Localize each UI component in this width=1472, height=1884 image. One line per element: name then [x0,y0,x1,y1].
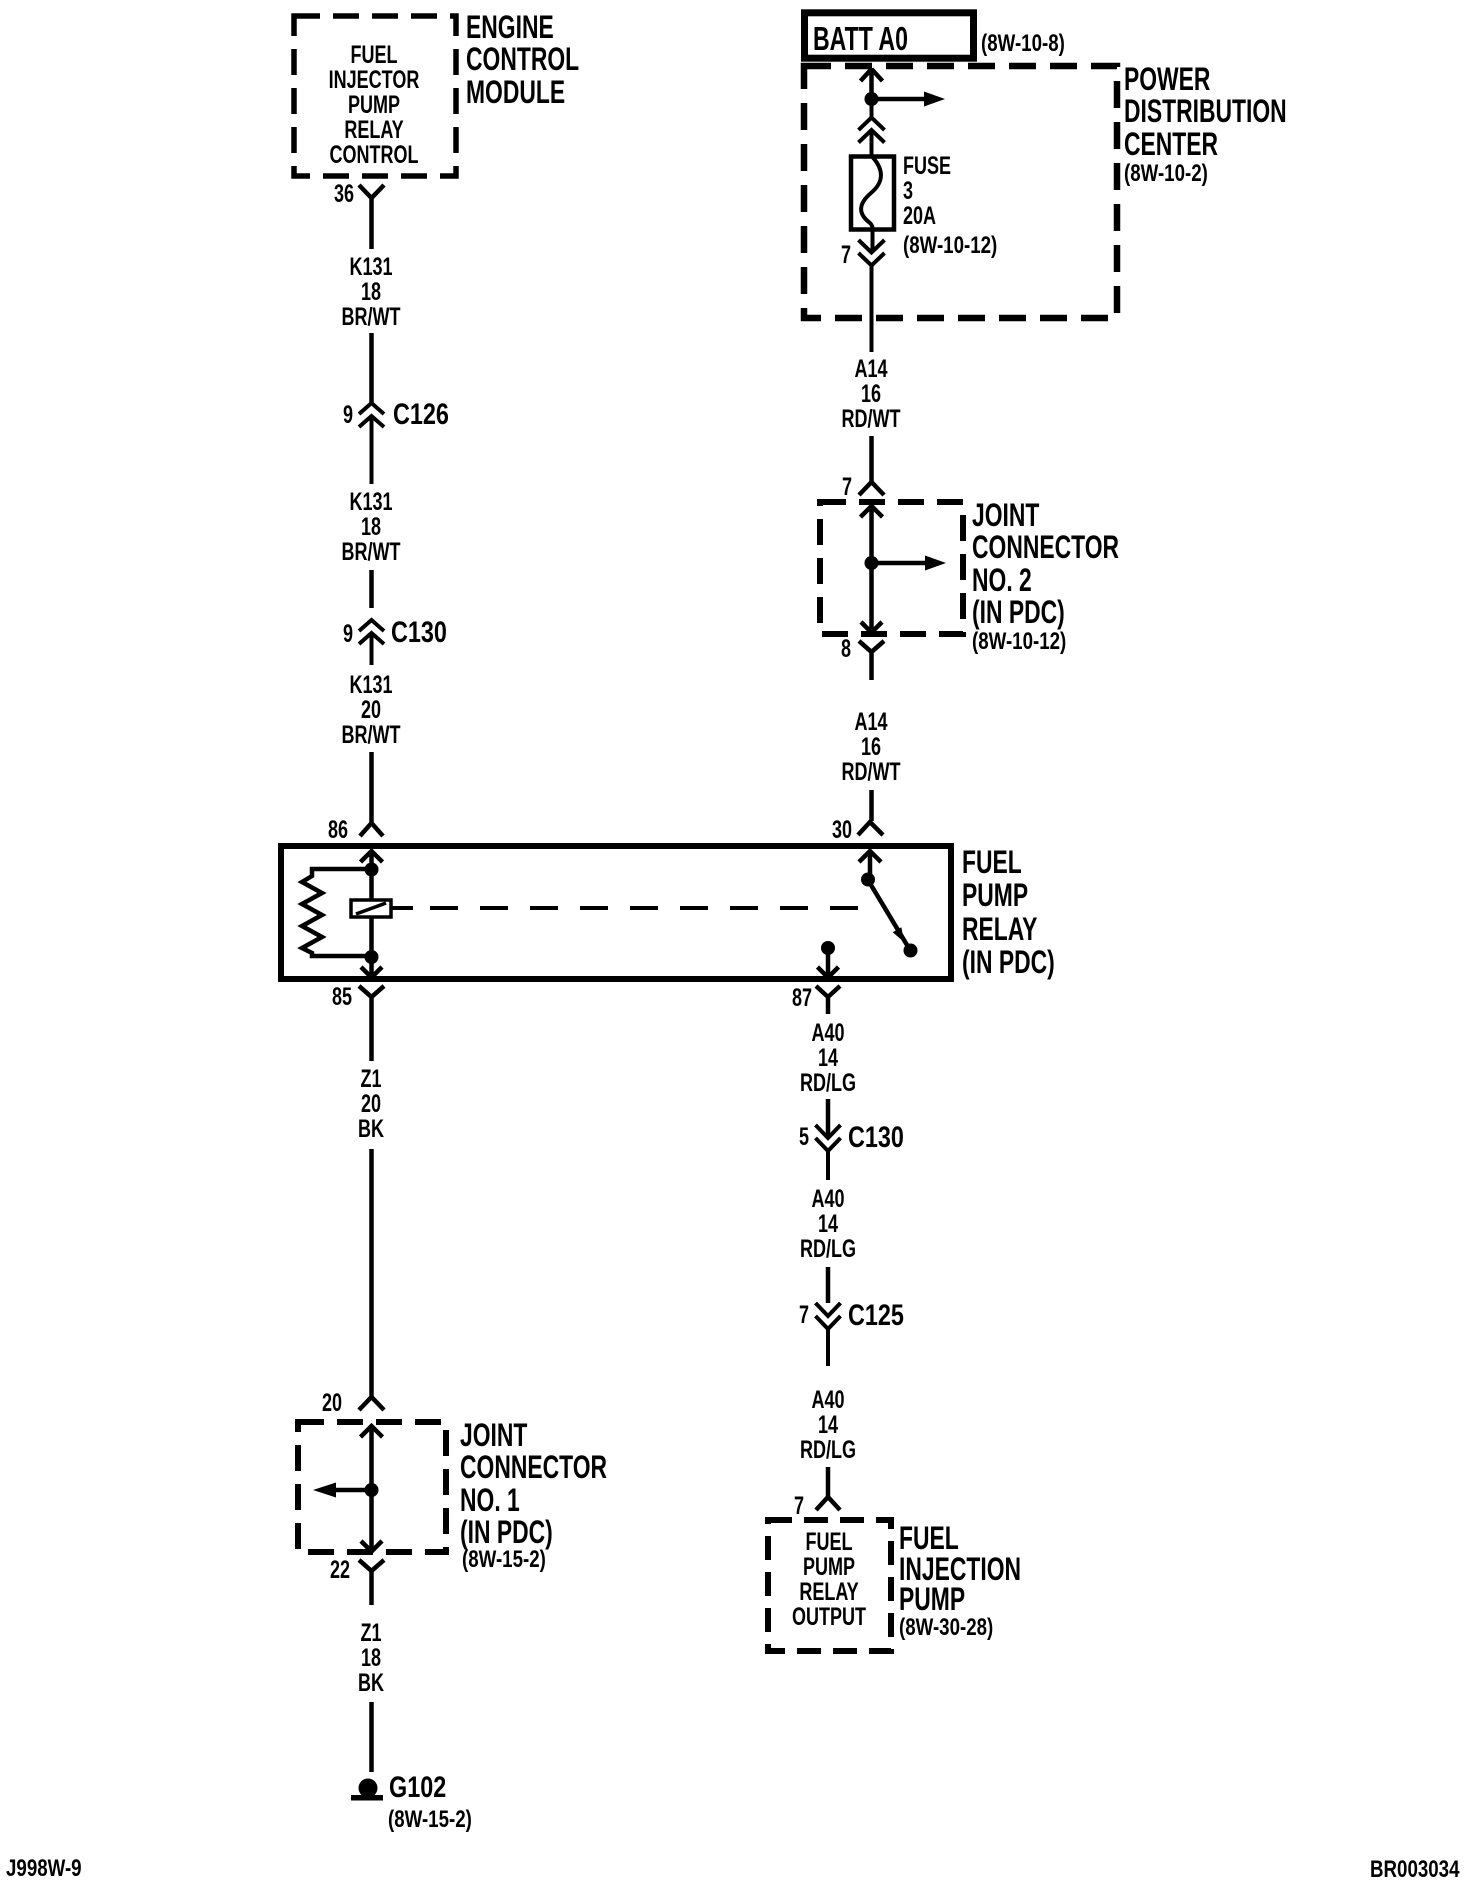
text: pin 7 at fuel injection pump [660,1494,804,1520]
PDC branch arrow right [872,97,925,102]
text: pin 20 [198,1391,342,1417]
text: pin 7 at joint connector no.2 [708,475,852,501]
joint connector no.2 right arrow [872,561,926,566]
text: connector C126 [393,400,449,430]
text: battery feed reference [981,31,1065,56]
joint connector no.2 box (dashed) [820,502,963,634]
PDC double chevron connector [859,99,885,156]
wire A40 14 RD/LG segment 1 [826,1099,831,1138]
pin 85 connector Y [359,986,384,1061]
node joint connector no.2 junction [865,556,879,570]
text: wire K131 18 BR/WT (2) [263,490,479,565]
text: fuse 3 20A label [903,154,951,229]
text: pin 9 at C130 [209,622,353,648]
joint connector no.1 box (dashed) [298,1422,446,1552]
text: wire A40 14 RD/LG (3) [720,1388,936,1463]
node relay coil top junction [365,863,379,877]
pin 8 connector Y [859,641,884,680]
text: battery feed BATT A0 [813,22,908,55]
text: fuel pump relay title [962,846,1055,979]
text: pin 22 [206,1558,350,1584]
text: connector C130 (right) [848,1123,904,1153]
pin 36 connector Y [359,185,384,249]
connector C126 symbol [359,403,384,484]
text: ground G102 [389,1773,446,1803]
pin 30 female chevron [858,822,883,835]
fuel pump relay box [281,846,951,979]
text: pin 87 [668,986,812,1012]
engine control module box (dashed) [294,16,456,176]
pin 20 male arrow inside [361,1426,383,1490]
text: fuse reference [903,233,997,258]
pin 8 wire and exit arrow [861,563,882,633]
wire Z1 20 BK [369,1149,374,1397]
text: connector C125 [848,1301,904,1331]
text: engine control module pin function [266,43,482,168]
text: wire A40 14 RD/LG (2) [720,1187,936,1262]
text: pin 7 at C125 [665,1303,809,1329]
text: ground G102 reference [388,1807,472,1832]
text: pin 36 [210,182,354,208]
text: fuel injection pump title [899,1523,1021,1615]
node joint connector no.1 junction [365,1483,379,1497]
pin 22 wire and exit arrow [361,1490,382,1552]
connector C130 symbol (left) [359,620,384,665]
fuse 3 20A body [851,157,894,230]
text: connector C130 (left) [391,618,447,648]
text: wire A40 14 RD/LG (1) [720,1021,936,1096]
wire A40 14 RD/LG segment 2 [826,1267,831,1303]
text: wire Z1 20 BK [263,1067,479,1142]
text: pin 86 [204,818,348,844]
pin 7 female chevron above joint connector no.2 [859,482,884,495]
text: pin 7 below fuse [707,243,851,269]
text: pin 9 at C126 [209,403,353,429]
connector C130 symbol (right, down) [816,1125,841,1180]
relay armature box [351,900,391,917]
wire Z1 18 BK [369,1702,374,1772]
node relay common contact [861,873,875,887]
text: wire Z1 18 BK [263,1621,479,1696]
text: wire A14 16 RD/WT (2) [763,710,979,785]
text: pin 30 [708,818,852,844]
joint connector no.1 left arrow [336,1488,372,1493]
text: pin 5 at C130 [665,1125,809,1151]
text: footer drawing number J998W-9 [6,1856,82,1881]
wire A40 14 RD/LG segment 3 [826,1467,831,1496]
wire BATT A0 to fuse, arrow into BATT [861,68,883,99]
wire K131 20 BR/WT lower segment [369,752,374,822]
text: power distribution center title [1124,63,1287,160]
power distribution center box (dashed) [804,66,1117,318]
text: power distribution center reference [1124,161,1208,186]
text: pin 85 [208,985,352,1011]
fuel pump relay output box (dashed) [768,1520,891,1651]
text: joint connector no.1 title [460,1419,607,1548]
pin 7 wire below fuse with double chevron down [859,229,885,352]
pin 20 female chevron [359,1397,384,1410]
relay switch arm [868,880,910,950]
node PDC junction [865,92,879,106]
pin 87 connector Y [816,986,840,1014]
text: wire K131 18 BR/WT (1) [263,255,479,330]
fuse element wave [861,157,881,229]
text: pin 8 [707,637,851,663]
pin 7 female chevron above fuel injection pump [816,1497,840,1510]
pin 87 wire and exit arrow [818,948,839,978]
pin 22 connector Y [359,1560,384,1605]
text: fuel injection pump reference [899,1615,993,1640]
relay armature slash [356,903,386,914]
relay actuation dashed link [392,906,413,910]
battery feed box BATT A0 [805,13,974,58]
text: footer drawing number BR003034 [1370,1857,1460,1882]
wire K131 18 BR/WT mid segment [369,570,374,608]
pin 30 male arrow inside relay [859,851,881,879]
wire K131 18 BR/WT upper segment [369,333,374,403]
wire relay coil vertical [369,869,374,957]
text: wire A14 16 RD/WT (1) [763,357,979,432]
text: joint connector no.2 title [972,499,1119,628]
pin 85 wire and exit arrow [361,957,382,978]
text: joint connector no.1 reference [462,1547,546,1572]
connector C125 symbol [816,1303,841,1366]
ground G102 symbol [359,1779,378,1798]
relay coil (zigzag) [302,869,372,956]
text: engine control module title [466,11,579,108]
wire A14 16 RD/WT lower segment [869,790,874,821]
text: joint connector no.2 reference [972,629,1066,654]
wire A14 16 RD/WT upper segment [869,436,874,482]
node relay coil bottom junction [365,950,379,964]
pin 86 female chevron [360,823,383,836]
pin 86 male arrow inside relay [361,851,383,869]
pin 7 male arrow inside [861,506,883,563]
text: fuel pump relay output pin function [721,1530,937,1630]
text: wire K131 20 BR/WT [263,673,479,748]
node relay pin 87 contact [821,941,835,955]
node relay switch arm end [904,944,918,958]
